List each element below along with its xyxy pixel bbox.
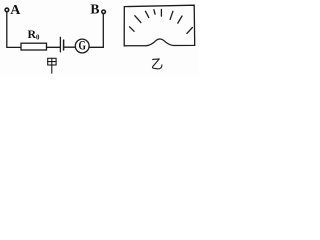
label jia (left caption, drawn glyph)	[48, 58, 56, 73]
svg-text:G: G	[79, 39, 87, 53]
meter tick 1 (leftmost)	[130, 27, 135, 32]
svg-text:A: A	[10, 3, 21, 18]
battery long plate	[59, 37, 61, 52]
galvanometer G circle	[75, 39, 89, 53]
wire battery to galvanometer	[64, 46, 75, 48]
terminal B circle	[102, 10, 106, 14]
meter tick 2	[135, 16, 141, 23]
meter tick 3	[146, 11, 149, 17]
wire galvanometer up to B	[89, 14, 103, 48]
meter tick 7	[178, 16, 182, 23]
wire resistor to battery	[47, 46, 60, 48]
meter tick 5 (vertical)	[160, 9, 162, 16]
resistor R0	[21, 43, 47, 50]
meter tick 8 (rightmost)	[187, 28, 193, 34]
svg-text:B: B	[90, 2, 99, 17]
label yi (right caption, drawn glyph)	[152, 59, 161, 69]
meter tick 4	[154, 10, 155, 15]
meter tick 6	[170, 11, 173, 19]
terminal A circle	[5, 8, 9, 12]
meter box (right) with bottom hump	[124, 5, 195, 46]
svg-text:R0: R0	[28, 27, 41, 41]
battery short plate	[63, 40, 65, 50]
wire from A down and to resistor	[7, 12, 21, 47]
